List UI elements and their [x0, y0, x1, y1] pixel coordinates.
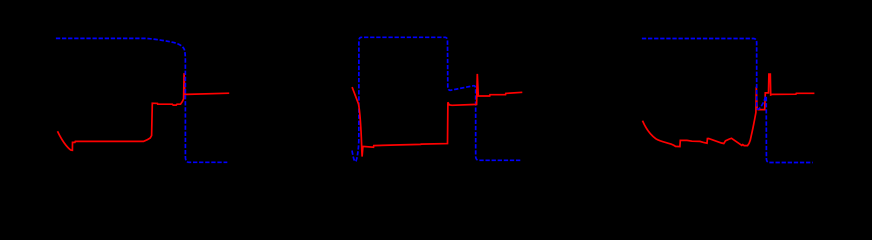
- panel 2 blue dashed curve: [352, 37, 520, 161]
- panel 3 red solid curve: [643, 74, 815, 147]
- panel 1 blue dashed curve: [56, 38, 227, 162]
- panel 1 red solid curve: [58, 73, 230, 150]
- panel 3 blue dashed curve: [642, 39, 813, 163]
- panel 2 red solid curve: [352, 74, 522, 157]
